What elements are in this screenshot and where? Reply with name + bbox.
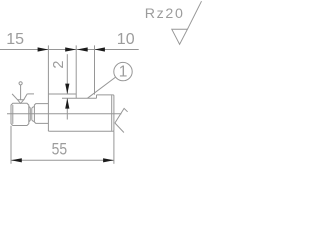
- svg-text:15: 15: [6, 31, 24, 48]
- svg-text:2: 2: [51, 61, 67, 69]
- svg-text:1: 1: [119, 63, 128, 80]
- svg-text:55: 55: [52, 139, 68, 158]
- svg-text:10: 10: [117, 31, 135, 48]
- svg-text:Rz20: Rz20: [145, 6, 185, 22]
